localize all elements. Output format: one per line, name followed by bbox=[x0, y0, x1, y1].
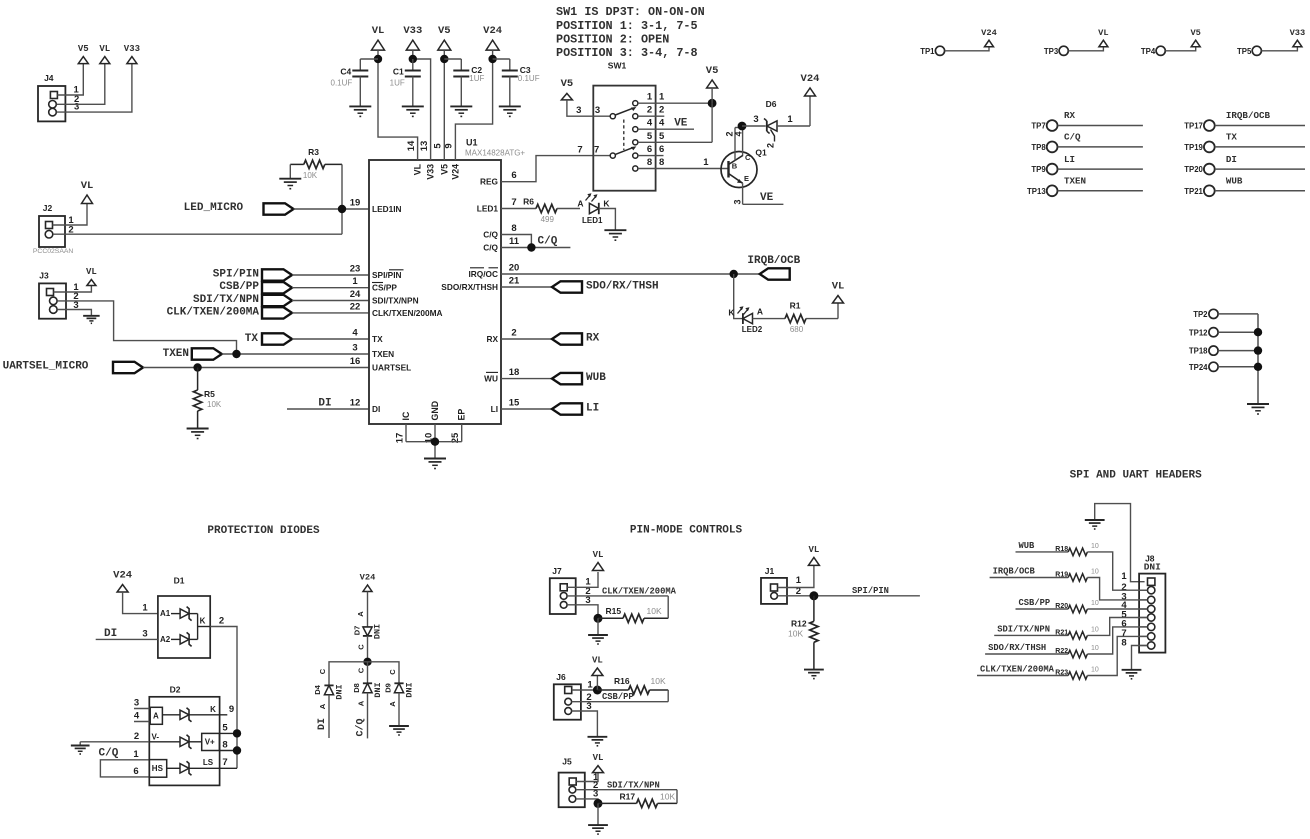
J6 pin 2 label bbox=[586, 692, 591, 703]
net label C/Q (D8) bbox=[355, 718, 367, 736]
svg-text:3: 3 bbox=[74, 102, 79, 113]
D6 pin 3 label bbox=[753, 114, 758, 125]
junction LED1IN node bbox=[338, 205, 346, 213]
wire J1.1 to VL bbox=[778, 566, 814, 588]
svg-text:LED1: LED1 bbox=[477, 204, 499, 214]
wire CLK/TXEN/200MA net bbox=[977, 675, 1068, 677]
wire TP19 stub bbox=[1215, 146, 1305, 148]
test point TP7 bbox=[1031, 120, 1057, 131]
U1 pin name C/Q (11) bbox=[483, 243, 498, 253]
svg-text:17: 17 bbox=[395, 433, 406, 444]
wire D2.8 bbox=[219, 750, 237, 752]
wire R18 to J8 bbox=[1087, 552, 1147, 590]
svg-text:R12: R12 bbox=[791, 619, 807, 629]
svg-text:DI: DI bbox=[1226, 154, 1237, 165]
wire LED_MICRO to U1.19 bbox=[294, 208, 370, 210]
test point TP8 bbox=[1031, 142, 1057, 153]
wire D1.2 to D2 bbox=[210, 627, 237, 769]
svg-text:1: 1 bbox=[133, 749, 139, 760]
svg-text:POSITION 2: OPEN: POSITION 2: OPEN bbox=[556, 32, 669, 46]
svg-text:3: 3 bbox=[576, 105, 581, 116]
power V24 (D1) bbox=[113, 570, 132, 592]
svg-text:2: 2 bbox=[134, 731, 139, 742]
wire Q1 collector pins 2/4 bbox=[735, 126, 743, 160]
J8 pin 5 contact bbox=[1139, 614, 1155, 621]
diode D9 bbox=[394, 683, 403, 692]
wire J3.1 to VL bbox=[54, 286, 92, 293]
svg-text:TXEN: TXEN bbox=[163, 348, 189, 360]
U1 pin name VL (top) bbox=[413, 163, 423, 175]
svg-text:D1: D1 bbox=[174, 576, 185, 586]
svg-text:TX: TX bbox=[245, 333, 259, 345]
diode D6 bbox=[764, 99, 777, 134]
power V24 (rail) bbox=[483, 25, 502, 50]
svg-text:C/Q: C/Q bbox=[355, 718, 367, 736]
J6 pin 1 label bbox=[587, 680, 593, 691]
wire TP9 stub bbox=[1058, 168, 1143, 170]
wire J3.3 to ground bbox=[57, 310, 91, 316]
svg-text:J7: J7 bbox=[552, 566, 562, 576]
svg-text:VE: VE bbox=[674, 118, 688, 130]
ground (J8 top) bbox=[1085, 520, 1105, 529]
SW1 contact at y155.6 bbox=[633, 153, 638, 158]
svg-text:K: K bbox=[603, 199, 610, 209]
junction TXEN node bbox=[232, 350, 240, 358]
Q1 pin 4 label bbox=[733, 131, 743, 136]
ground (R3) bbox=[279, 179, 301, 189]
U1 pin number 14 (top) bbox=[406, 140, 417, 151]
wire J5.3 down bbox=[576, 799, 598, 804]
wire J6.3 to ground bbox=[572, 711, 598, 737]
svg-text:J6: J6 bbox=[556, 672, 566, 682]
svg-text:16: 16 bbox=[350, 356, 361, 367]
svg-text:A: A bbox=[577, 199, 583, 209]
svg-text:LS: LS bbox=[203, 758, 214, 767]
J6 pin 3 label bbox=[586, 701, 591, 712]
ground (J8 bottom) bbox=[1122, 670, 1142, 679]
diode array D1 body bbox=[158, 576, 210, 659]
svg-text:E: E bbox=[744, 174, 749, 183]
wire U1 to RX flag bbox=[501, 338, 552, 340]
wire SPI/PIN to U1 bbox=[292, 274, 369, 276]
svg-text:J4: J4 bbox=[44, 73, 54, 83]
net label UARTSEL_MICRO bbox=[3, 361, 89, 373]
SW1 dashed link bbox=[623, 120, 625, 151]
svg-text:WU: WU bbox=[484, 374, 498, 384]
svg-text:V24: V24 bbox=[113, 570, 132, 582]
wire D8 to C/Q bbox=[367, 693, 369, 739]
svg-text:2: 2 bbox=[659, 105, 664, 116]
svg-text:2: 2 bbox=[219, 615, 224, 626]
wire IRQ to LED2 bbox=[734, 274, 743, 319]
U1 pin name SDI/TX/NPN bbox=[372, 296, 419, 306]
U1 pin number 9 (top) bbox=[444, 143, 455, 148]
flag CSB/PP bbox=[262, 282, 292, 293]
SW1 pin 4 labels bbox=[647, 118, 665, 129]
svg-text:UARTSEL_MICRO: UARTSEL_MICRO bbox=[3, 361, 89, 373]
D1 pin A2 label bbox=[160, 635, 171, 644]
Q1 refdes bbox=[755, 148, 767, 158]
svg-text:TP8: TP8 bbox=[1031, 143, 1046, 152]
power VL (J3) bbox=[86, 267, 97, 286]
resistor R17 bbox=[598, 791, 677, 807]
wire R3 to LED1IN node bbox=[341, 164, 343, 234]
net label LED_MICRO bbox=[184, 202, 244, 214]
wire V5 rail bbox=[443, 50, 445, 160]
SW1 pin4 wire bbox=[638, 128, 694, 130]
svg-text:3: 3 bbox=[732, 199, 742, 204]
wire R21 to J8 bbox=[1087, 618, 1147, 636]
U1 pin number 15 (right) bbox=[509, 397, 520, 408]
svg-text:VL: VL bbox=[1098, 28, 1108, 38]
svg-text:LI: LI bbox=[586, 403, 599, 415]
svg-text:1: 1 bbox=[352, 276, 358, 287]
J8 pin 6 label bbox=[1121, 619, 1126, 630]
SW1 contact at y129.2 bbox=[633, 127, 638, 132]
svg-text:10: 10 bbox=[1091, 667, 1099, 674]
resistor R5 bbox=[193, 368, 221, 429]
svg-text:PROTECTION DIODES: PROTECTION DIODES bbox=[207, 525, 320, 537]
resistor R20 bbox=[1055, 600, 1099, 613]
svg-text:LED1: LED1 bbox=[582, 216, 603, 225]
resistor R22 bbox=[1055, 645, 1099, 658]
svg-text:J3: J3 bbox=[39, 271, 49, 281]
pin 3 label J4 bbox=[74, 102, 79, 113]
junction VL rail bbox=[374, 55, 382, 63]
svg-text:1: 1 bbox=[796, 575, 802, 586]
svg-text:SPI/PIN: SPI/PIN bbox=[852, 586, 889, 596]
svg-text:CLK/TXEN/200MA: CLK/TXEN/200MA bbox=[980, 665, 1055, 675]
junction D2.8 bbox=[233, 746, 241, 754]
svg-text:J5: J5 bbox=[562, 757, 572, 767]
svg-text:7: 7 bbox=[577, 145, 582, 156]
capacitor C3 bbox=[493, 59, 540, 116]
SW1 contact at y103.2 bbox=[633, 101, 638, 106]
svg-text:0.1UF: 0.1UF bbox=[518, 74, 540, 83]
svg-text:CLK/TXEN/200MA: CLK/TXEN/200MA bbox=[602, 586, 677, 596]
svg-text:1UF: 1UF bbox=[390, 79, 405, 88]
title PIN-MODE CONTROLS bbox=[630, 525, 743, 537]
flag UARTSEL_MICRO bbox=[113, 362, 143, 373]
svg-text:4: 4 bbox=[647, 118, 653, 129]
SW1 pin 2 labels bbox=[647, 105, 664, 116]
J8 pin 2 label bbox=[1121, 582, 1126, 593]
SW1 pin 3 labels bbox=[576, 105, 600, 116]
net label LI (TP9) bbox=[1064, 154, 1075, 165]
wire J1.2 SPI net bbox=[778, 595, 920, 597]
wire R3 to ground bbox=[289, 164, 291, 178]
D7 DNI label bbox=[373, 624, 383, 639]
svg-text:C: C bbox=[388, 669, 397, 675]
svg-text:TP12: TP12 bbox=[1189, 328, 1208, 337]
wire J2.2 to LED1IN node bbox=[53, 233, 342, 235]
svg-text:0.1UF: 0.1UF bbox=[331, 79, 353, 88]
svg-text:1: 1 bbox=[647, 92, 653, 103]
svg-text:5: 5 bbox=[222, 722, 228, 733]
svg-text:IRQB/OCB: IRQB/OCB bbox=[747, 255, 800, 267]
SW1 pin5 wire bbox=[638, 141, 712, 143]
svg-text:8: 8 bbox=[647, 157, 652, 168]
svg-text:A: A bbox=[318, 703, 327, 709]
svg-text:R3: R3 bbox=[308, 147, 319, 157]
svg-text:CSB/PP: CSB/PP bbox=[1019, 598, 1051, 608]
svg-text:5: 5 bbox=[433, 143, 444, 149]
ground (U1) bbox=[424, 459, 446, 469]
net label CLK/TXEN/200MA (J8) bbox=[980, 665, 1055, 675]
power V5 (rail) bbox=[438, 25, 451, 50]
svg-text:6: 6 bbox=[511, 170, 516, 181]
svg-text:DNI: DNI bbox=[1144, 561, 1161, 572]
wire R17 loop bbox=[676, 790, 678, 804]
svg-text:TX: TX bbox=[372, 334, 383, 344]
svg-text:TXEN: TXEN bbox=[372, 349, 394, 359]
net label IRQB/OCB (J8) bbox=[993, 567, 1036, 577]
test point TP4 bbox=[1141, 46, 1165, 56]
wire R23 to J8 bbox=[1087, 636, 1147, 675]
wire J4.3 to V33 bbox=[57, 64, 132, 113]
D2 pin 4 label bbox=[134, 711, 140, 722]
wire TP ground bus bbox=[1257, 314, 1259, 404]
wire J7 ground stub bbox=[597, 618, 599, 635]
D4 C label bbox=[318, 668, 327, 674]
wire TP20 stub bbox=[1215, 168, 1305, 170]
wire REG to SW1.7 bbox=[501, 156, 593, 182]
connector J8 body bbox=[1139, 553, 1165, 652]
SW1 pin8 wire to Q1 bbox=[638, 168, 729, 170]
power V5 (SW1 right) bbox=[706, 65, 719, 88]
J8 pin 3 label bbox=[1121, 591, 1126, 602]
svg-text:R20: R20 bbox=[1055, 603, 1068, 610]
diode D2a bbox=[162, 708, 191, 722]
svg-text:TP17: TP17 bbox=[1184, 122, 1203, 131]
junction J6 bbox=[593, 686, 602, 695]
svg-text:V24: V24 bbox=[801, 73, 820, 85]
net label WUB bbox=[586, 372, 606, 384]
svg-text:EP: EP bbox=[457, 409, 467, 421]
connector J4 bbox=[38, 73, 65, 121]
title PROTECTION DIODES bbox=[207, 525, 320, 537]
U1 pin number 25 bbox=[450, 432, 461, 443]
D2 pin V- label bbox=[152, 732, 160, 741]
svg-text:RX: RX bbox=[1064, 110, 1076, 121]
svg-text:R6: R6 bbox=[523, 196, 534, 206]
wire J2.1 to VL bbox=[53, 204, 88, 226]
transistor Q1 bbox=[721, 152, 757, 188]
test point TP24 bbox=[1189, 362, 1218, 372]
svg-text:10K: 10K bbox=[660, 791, 675, 801]
svg-text:V33: V33 bbox=[403, 25, 422, 37]
wire SDI/TX/NPN to U1 bbox=[292, 300, 369, 302]
svg-text:V24: V24 bbox=[483, 25, 502, 37]
svg-text:A: A bbox=[357, 700, 366, 706]
svg-text:SDI/TX/NPN: SDI/TX/NPN bbox=[193, 294, 259, 306]
title SPI AND UART HEADERS bbox=[1070, 469, 1202, 481]
svg-text:V+: V+ bbox=[205, 738, 215, 747]
D8 refdes bbox=[352, 683, 361, 693]
D8 A label bbox=[357, 700, 366, 706]
net label LI bbox=[586, 403, 599, 415]
wire D1 cathodes bbox=[189, 614, 210, 640]
svg-text:1: 1 bbox=[787, 114, 793, 125]
svg-text:10K: 10K bbox=[788, 629, 803, 639]
net label CSB/PP bbox=[219, 281, 259, 293]
junction TP18 bbox=[1254, 346, 1262, 354]
U1 pin name DI bbox=[372, 404, 380, 414]
power V5 (TP4) bbox=[1190, 28, 1200, 47]
wire J6.2 CSB net bbox=[572, 701, 669, 703]
junction V5 node (SW1) bbox=[708, 99, 717, 108]
U1 pin name LED1 bbox=[477, 204, 499, 214]
net label SPI/PIN bbox=[213, 269, 259, 281]
svg-text:DI: DI bbox=[317, 718, 328, 730]
wire CLK/TXEN/200MA to U1 bbox=[292, 312, 369, 314]
J8 DNI label bbox=[1144, 561, 1161, 572]
test point TP18 bbox=[1189, 346, 1218, 356]
flag IRQB/OCB bbox=[760, 268, 790, 279]
power V5 (J4) bbox=[78, 44, 89, 64]
D4 A label bbox=[318, 703, 327, 709]
power VL (J1) bbox=[808, 545, 819, 566]
D2 pin 4 stub bbox=[134, 721, 150, 723]
svg-text:4: 4 bbox=[134, 711, 140, 722]
SW1 contact at y142.3 bbox=[633, 140, 638, 145]
wire J3.2 to TXEN net bbox=[57, 301, 236, 354]
D2 pin K label bbox=[210, 705, 216, 714]
wire CSB/PP net bbox=[1016, 608, 1069, 610]
junction D2.5 bbox=[233, 729, 241, 737]
LED2 cathode label bbox=[728, 307, 735, 317]
U1 pin number 13 (top) bbox=[419, 141, 430, 152]
wire R22 to J8 bbox=[1087, 627, 1147, 654]
resistor R12 bbox=[788, 596, 818, 670]
power V24 (D7) bbox=[360, 573, 376, 592]
SW1 pivot pin 7 bbox=[610, 153, 615, 158]
wire J5 ground stub bbox=[597, 803, 599, 825]
diode D2c bbox=[167, 761, 237, 775]
U1 pin number 2 (right) bbox=[511, 327, 516, 338]
wire LED1 to ground bbox=[599, 209, 616, 231]
wire Q1 to D6 bbox=[742, 125, 766, 127]
svg-text:8: 8 bbox=[511, 223, 516, 234]
svg-text:TP24: TP24 bbox=[1189, 363, 1208, 372]
svg-text:2: 2 bbox=[511, 327, 516, 338]
LED1 anode label bbox=[577, 199, 583, 209]
svg-text:LED2: LED2 bbox=[742, 325, 763, 334]
svg-text:V24: V24 bbox=[450, 164, 460, 180]
U1 value MAX14828ATG+ bbox=[465, 149, 525, 158]
svg-text:D8: D8 bbox=[352, 683, 361, 693]
SW1 pin 6 labels bbox=[647, 144, 664, 155]
wire TP21 stub bbox=[1215, 190, 1305, 192]
svg-text:2: 2 bbox=[766, 143, 776, 148]
wire TP13 stub bbox=[1058, 190, 1143, 192]
D6 pin 2 label bbox=[766, 143, 776, 148]
power V33 (rail) bbox=[403, 25, 422, 50]
net label DI (U1) bbox=[318, 398, 331, 410]
LED LED2 bbox=[738, 306, 763, 334]
svg-text:SPI/PIN: SPI/PIN bbox=[372, 270, 402, 280]
wire C/Q loop pins 1 and 6 bbox=[100, 760, 149, 777]
J8 pin 5 label bbox=[1121, 610, 1127, 621]
svg-text:1: 1 bbox=[659, 92, 665, 103]
wire SDI/TX/NPN net bbox=[994, 634, 1068, 636]
wire D2 K pin 9 bbox=[189, 714, 227, 716]
ground (TP bus) bbox=[1247, 404, 1269, 414]
flag TX bbox=[262, 333, 292, 344]
resistor R21 bbox=[1055, 626, 1099, 639]
wire J8 pin8 to ground bbox=[1132, 646, 1148, 670]
D9 C label bbox=[388, 669, 397, 675]
LED2 anode label bbox=[757, 307, 763, 317]
J8 pin 7 label bbox=[1121, 628, 1126, 639]
net label CSB/PP (J6) bbox=[602, 692, 634, 702]
svg-text:9: 9 bbox=[444, 143, 455, 148]
ground (LED1) bbox=[604, 230, 626, 240]
wire TP7 stub bbox=[1058, 125, 1143, 127]
svg-text:DNI: DNI bbox=[373, 624, 383, 639]
net label DI (D1) bbox=[104, 628, 117, 640]
wire J4.2 to VL bbox=[57, 64, 105, 105]
U1 pin name GND bbox=[430, 401, 440, 421]
D2 pin 1 label bbox=[133, 749, 139, 760]
resistor R16 bbox=[597, 676, 668, 694]
svg-text:SPI AND UART HEADERS: SPI AND UART HEADERS bbox=[1070, 469, 1202, 481]
U1 pin number 10 bbox=[424, 433, 435, 444]
power VL (J7) bbox=[593, 550, 604, 571]
net label CLK/TXEN/200MA (J7) bbox=[602, 586, 677, 596]
J8 pin 8 contact bbox=[1139, 642, 1155, 649]
wire CSB/PP to U1 bbox=[292, 287, 369, 289]
power V24 (TP1) bbox=[981, 28, 997, 47]
svg-text:V5: V5 bbox=[78, 44, 89, 54]
D6 pin 2 stub bbox=[771, 130, 775, 142]
svg-text:PCC02SAAN: PCC02SAAN bbox=[33, 248, 74, 255]
svg-text:V24: V24 bbox=[981, 28, 997, 38]
junction J5 bbox=[594, 799, 603, 808]
wire TP18 to gnd bus bbox=[1218, 350, 1258, 352]
svg-text:A: A bbox=[388, 701, 397, 707]
test point TP12 bbox=[1189, 328, 1218, 338]
Q1 pin 3 label bbox=[732, 199, 742, 204]
Q1 pin 2 label bbox=[725, 131, 735, 136]
svg-text:19: 19 bbox=[350, 198, 361, 209]
svg-text:VL: VL bbox=[592, 655, 603, 665]
flag WUB bbox=[552, 373, 582, 384]
svg-text:V5: V5 bbox=[438, 25, 451, 37]
pin 1 label J4 bbox=[73, 84, 79, 95]
junction UARTSEL node bbox=[193, 363, 201, 371]
svg-text:3: 3 bbox=[142, 629, 147, 640]
svg-text:9: 9 bbox=[229, 704, 234, 715]
net label C/Q (D2) bbox=[99, 748, 119, 760]
test point TP19 bbox=[1184, 142, 1214, 153]
D1 pin 3 label bbox=[142, 629, 147, 640]
svg-text:23: 23 bbox=[350, 264, 361, 275]
svg-text:POSITION 1: 3-1, 7-5: POSITION 1: 3-1, 7-5 bbox=[556, 19, 698, 33]
svg-text:7: 7 bbox=[222, 757, 227, 768]
SW1 arm 7-6 bbox=[615, 146, 636, 154]
U1 pin number 19 bbox=[350, 198, 361, 209]
svg-text:C/Q: C/Q bbox=[483, 230, 498, 240]
D2 pin 2 label bbox=[134, 731, 139, 742]
test point TP13 bbox=[1027, 185, 1057, 196]
svg-text:V5: V5 bbox=[706, 65, 719, 77]
svg-text:TXEN: TXEN bbox=[1064, 176, 1086, 187]
power VL (J2) bbox=[81, 180, 94, 203]
diode D1b bbox=[171, 632, 192, 646]
svg-text:C/Q: C/Q bbox=[99, 748, 119, 760]
net label DI (TP20) bbox=[1226, 154, 1237, 165]
